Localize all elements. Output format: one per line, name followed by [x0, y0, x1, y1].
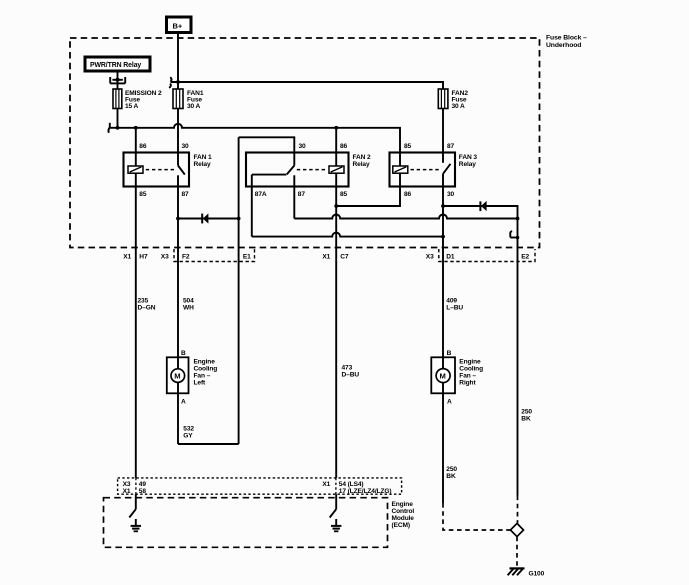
svg-text:Module: Module [392, 515, 415, 522]
junction dot FAN1 87 / diode branch [176, 217, 180, 221]
svg-text:WH: WH [183, 305, 194, 312]
relay FAN2 coil wire (86 to 85) [335, 153, 337, 187]
relay FAN2 87A wire inside box [251, 175, 253, 187]
ECM low-side driver left (switch to ground) [129, 494, 141, 531]
label FAN1 Fuse 30 A [187, 90, 204, 110]
svg-text:Left: Left [194, 380, 207, 387]
label FAN 2 Relay [353, 154, 372, 168]
svg-text:Relay: Relay [353, 161, 370, 168]
wire bus to FAN2 relay pin 86 [335, 128, 337, 153]
wire FAN2 85 / FAN3 86 to C7 [335, 187, 337, 478]
connector symbol below PWR/TRN relay [110, 77, 125, 83]
svg-text:86: 86 [404, 191, 412, 198]
junction dot C7 node [334, 204, 338, 208]
circuit label 532 GY [183, 426, 194, 440]
H2 wire: FAN2 87A to D1 (hops over C7) [252, 233, 443, 237]
wire FAN1 relay 87 to F2 (down) [177, 187, 179, 358]
relay FAN1 coil [128, 166, 143, 173]
relay FAN1 switch [178, 153, 185, 187]
svg-text:30 A: 30 A [452, 103, 466, 110]
wire motor right A down (250 BK) [442, 393, 444, 503]
svg-text:Engine: Engine [459, 359, 481, 366]
ECM connector separator left [135, 478, 137, 494]
svg-text:FAN 1: FAN 1 [194, 154, 213, 161]
svg-text:Cooling: Cooling [459, 366, 483, 373]
wire E1: FAN2-30 riser down to motor loop [238, 137, 240, 444]
ECM low-side driver right (switch to ground) [330, 494, 342, 531]
svg-text:Cooling: Cooling [194, 366, 218, 373]
relay FAN2 pin labels [255, 143, 348, 198]
svg-text:BK: BK [521, 415, 531, 422]
H1 wire: FAN2 87 to E2 (hops over C7 and D1) [294, 215, 517, 219]
diode left fan symbol [202, 214, 208, 224]
relay FAN3 pin labels [404, 143, 455, 198]
svg-text:BK: BK [446, 473, 456, 480]
label FAN2 Fuse 30 A [452, 90, 469, 110]
hook at left end of coil bus [108, 123, 109, 133]
svg-text:17 (LZE/LZ4/LZG): 17 (LZE/LZ4/LZG) [339, 488, 392, 495]
junction dot bus to FAN1 relay 86 [134, 126, 138, 130]
label EMISSION 2 Fuse 15 A [125, 90, 162, 110]
junction dot H2 to D1 wire [441, 235, 445, 239]
ECM connector separator right [335, 478, 337, 494]
svg-text:Fan –: Fan – [459, 373, 476, 380]
wire B+ down to FAN1 fuse [177, 33, 179, 90]
svg-text:235: 235 [138, 298, 149, 305]
wire E1 riser to FAN2 pin 30 (corner link) [239, 137, 295, 152]
fuse terminal hooks left of B+ junction [169, 77, 171, 88]
svg-text:X3: X3 [123, 481, 131, 488]
wire H7: FAN1 85 down to ECM [135, 187, 137, 478]
relay FAN1 pin labels [139, 143, 189, 198]
svg-text:D1: D1 [446, 254, 455, 261]
svg-text:250: 250 [521, 408, 532, 415]
loop bottom wire F2/E1 [178, 443, 239, 445]
svg-text:X1: X1 [322, 254, 330, 261]
connector C1 dashed outline (D1/E2) [439, 249, 535, 262]
circuit label 235 D-GN [138, 298, 156, 312]
junction dot FAN3 30 / diode branch [441, 204, 445, 208]
svg-text:L–BU: L–BU [446, 305, 463, 312]
svg-text:Relay: Relay [194, 161, 211, 168]
svg-text:G100: G100 [529, 570, 545, 577]
svg-text:B: B [447, 350, 452, 357]
svg-text:504: 504 [183, 298, 194, 305]
motor engine cooling fan right [431, 357, 455, 393]
circuit label 409 L-BU [446, 298, 463, 312]
svg-text:Engine: Engine [392, 501, 414, 508]
svg-text:X3: X3 [161, 254, 169, 261]
svg-text:B: B [181, 350, 186, 357]
wire PWR/TRN relay to EMISSION 2 fuse [117, 71, 119, 89]
svg-text:409: 409 [446, 298, 457, 305]
svg-text:87: 87 [182, 191, 190, 198]
svg-text:15 A: 15 A [125, 103, 139, 110]
junction dot bus to FAN2 relay 86 [334, 126, 338, 130]
svg-text:87: 87 [447, 143, 455, 150]
connector C2 dashed outline (F2/E1) [174, 249, 255, 262]
svg-text:Fuse Block –: Fuse Block – [546, 35, 587, 42]
svg-text:532: 532 [183, 426, 194, 433]
wire E2 down to splice (solid then dashed) [517, 248, 519, 496]
relay FAN1 coil wire (pin 86 to 85) [135, 153, 137, 187]
connector strip labels at fuse block exit [123, 254, 529, 261]
motor engine cooling fan left [167, 357, 189, 393]
svg-text:Engine: Engine [194, 359, 216, 366]
motor left pin labels [181, 350, 186, 406]
svg-text:(ECM): (ECM) [392, 522, 410, 529]
link FAN3 86 to C7 node [336, 187, 400, 207]
svg-text:F2: F2 [182, 254, 190, 261]
dashed wire 250 BK to splice [443, 503, 510, 530]
svg-text:58: 58 [139, 488, 147, 495]
svg-text:E2: E2 [521, 254, 529, 261]
junction dot EMISSION2 fuse to bus [116, 126, 120, 130]
svg-text:A: A [181, 399, 186, 406]
relay FAN2 coil-switch dashed link [297, 169, 327, 171]
fuse FAN1 30A [173, 89, 183, 109]
svg-text:FAN 2: FAN 2 [353, 154, 372, 161]
circuit label 250 BK (E2 wire) [521, 408, 532, 422]
wire motor left A to loop bottom [177, 393, 179, 444]
svg-text:D–GN: D–GN [138, 305, 156, 312]
svg-text:54 (LS4): 54 (LS4) [339, 481, 364, 488]
relay FAN1 coil-switch dashed link [146, 169, 176, 171]
svg-text:X3: X3 [426, 254, 434, 261]
diode right fan symbol [480, 201, 486, 211]
relay FAN2 coil [329, 166, 344, 173]
svg-text:Fan –: Fan – [194, 373, 211, 380]
motor right pin labels [447, 350, 452, 406]
svg-text:49: 49 [139, 481, 147, 488]
svg-text:B+: B+ [173, 21, 183, 30]
junction dot H1 to E2 wire [516, 217, 520, 221]
relay FAN2 switch with 87A contact [252, 153, 294, 187]
ECM connector strip (dotted) [118, 478, 402, 494]
svg-text:86: 86 [139, 143, 147, 150]
wire EMISSION 2 fuse to coil bus [117, 109, 119, 128]
fuse FAN2 30A [438, 89, 448, 109]
svg-text:85: 85 [139, 191, 147, 198]
svg-text:473: 473 [342, 364, 353, 371]
wire FAN2 87A to H2 run [251, 187, 253, 237]
label Fuse Block - Underhood [546, 35, 587, 50]
svg-text:Relay: Relay [459, 161, 476, 168]
svg-text:X1: X1 [123, 254, 131, 261]
svg-text:M: M [440, 372, 446, 381]
svg-text:D–BU: D–BU [342, 371, 360, 378]
svg-text:FAN 3: FAN 3 [459, 154, 478, 161]
svg-text:H7: H7 [139, 254, 148, 261]
svg-text:87: 87 [298, 191, 306, 198]
junction dot at B+ branch [176, 80, 180, 84]
flyback diode (right fan) wire D1 to E2 [443, 206, 518, 248]
relay FAN3 switch [443, 153, 451, 187]
svg-text:30: 30 [182, 143, 190, 150]
wire branch to FAN2 fuse (y=82) [171, 82, 444, 89]
circuit label 473 D-BU [342, 364, 360, 378]
wire FAN2 fuse to FAN3 relay pin 87 [442, 109, 444, 153]
svg-text:250: 250 [446, 466, 457, 473]
svg-text:X1: X1 [322, 481, 330, 488]
svg-text:M: M [174, 372, 180, 381]
svg-text:86: 86 [340, 143, 348, 150]
svg-text:85: 85 [404, 143, 412, 150]
svg-text:X1: X1 [123, 488, 131, 495]
junction dot diode to E1 wire [237, 217, 241, 221]
label Engine Cooling Fan - Left [194, 359, 218, 387]
svg-text:GY: GY [183, 433, 193, 440]
relay FAN3 box [390, 153, 456, 187]
dashed wire splice to G100 [516, 537, 518, 567]
ground G100 symbol [508, 568, 525, 575]
B+ power feed box [167, 17, 192, 33]
flyback diode (left fan) wire 87 to E1 [178, 218, 239, 220]
svg-text:30 A: 30 A [187, 103, 201, 110]
relay FAN1 box [124, 153, 190, 187]
circuit label 250 BK (right motor) [446, 466, 457, 480]
svg-text:87A: 87A [255, 191, 267, 198]
label FAN 1 Relay [194, 154, 213, 168]
svg-text:30: 30 [299, 143, 307, 150]
wire FAN1 fuse to relay pin 30 [177, 109, 179, 153]
svg-text:Right: Right [459, 380, 476, 387]
svg-text:E1: E1 [243, 254, 251, 261]
svg-text:Control: Control [392, 508, 415, 515]
svg-text:Underhood: Underhood [546, 42, 581, 49]
label FAN 3 Relay [459, 154, 478, 168]
relay FAN2 box [246, 153, 349, 187]
relay FAN3 coil [393, 166, 408, 173]
label Engine Control Module (ECM) [392, 501, 415, 529]
svg-text:A: A [447, 399, 452, 406]
splice S (diamond) [510, 523, 523, 536]
ECM dashed box [104, 498, 388, 548]
relay FAN3 coil-switch dashed link [411, 169, 441, 171]
relay FAN3 coil wire (85 to 86) [399, 153, 401, 187]
svg-text:C7: C7 [340, 254, 349, 261]
relay coil supply bus (hops over FAN1 fuse wire) [109, 124, 400, 153]
relay PWR/TRN label box [85, 57, 150, 71]
fuse EMISSION 2 15A [113, 89, 122, 109]
wire FAN3 30 to D1 (down to right motor) [442, 187, 444, 358]
svg-text:85: 85 [340, 191, 348, 198]
inline connector hook on E2 wire [510, 231, 519, 239]
label Engine Cooling Fan - Right [459, 359, 483, 387]
svg-text:30: 30 [447, 191, 455, 198]
ECM pin labels [123, 481, 392, 495]
fuse block underhood dashed boundary [70, 38, 540, 248]
wire FAN2 87 to H1 run [293, 187, 295, 219]
circuit label 504 WH [183, 298, 194, 312]
wire bus to FAN1 relay pin 86 [135, 128, 137, 153]
svg-text:PWR/TRN Relay: PWR/TRN Relay [90, 62, 141, 69]
